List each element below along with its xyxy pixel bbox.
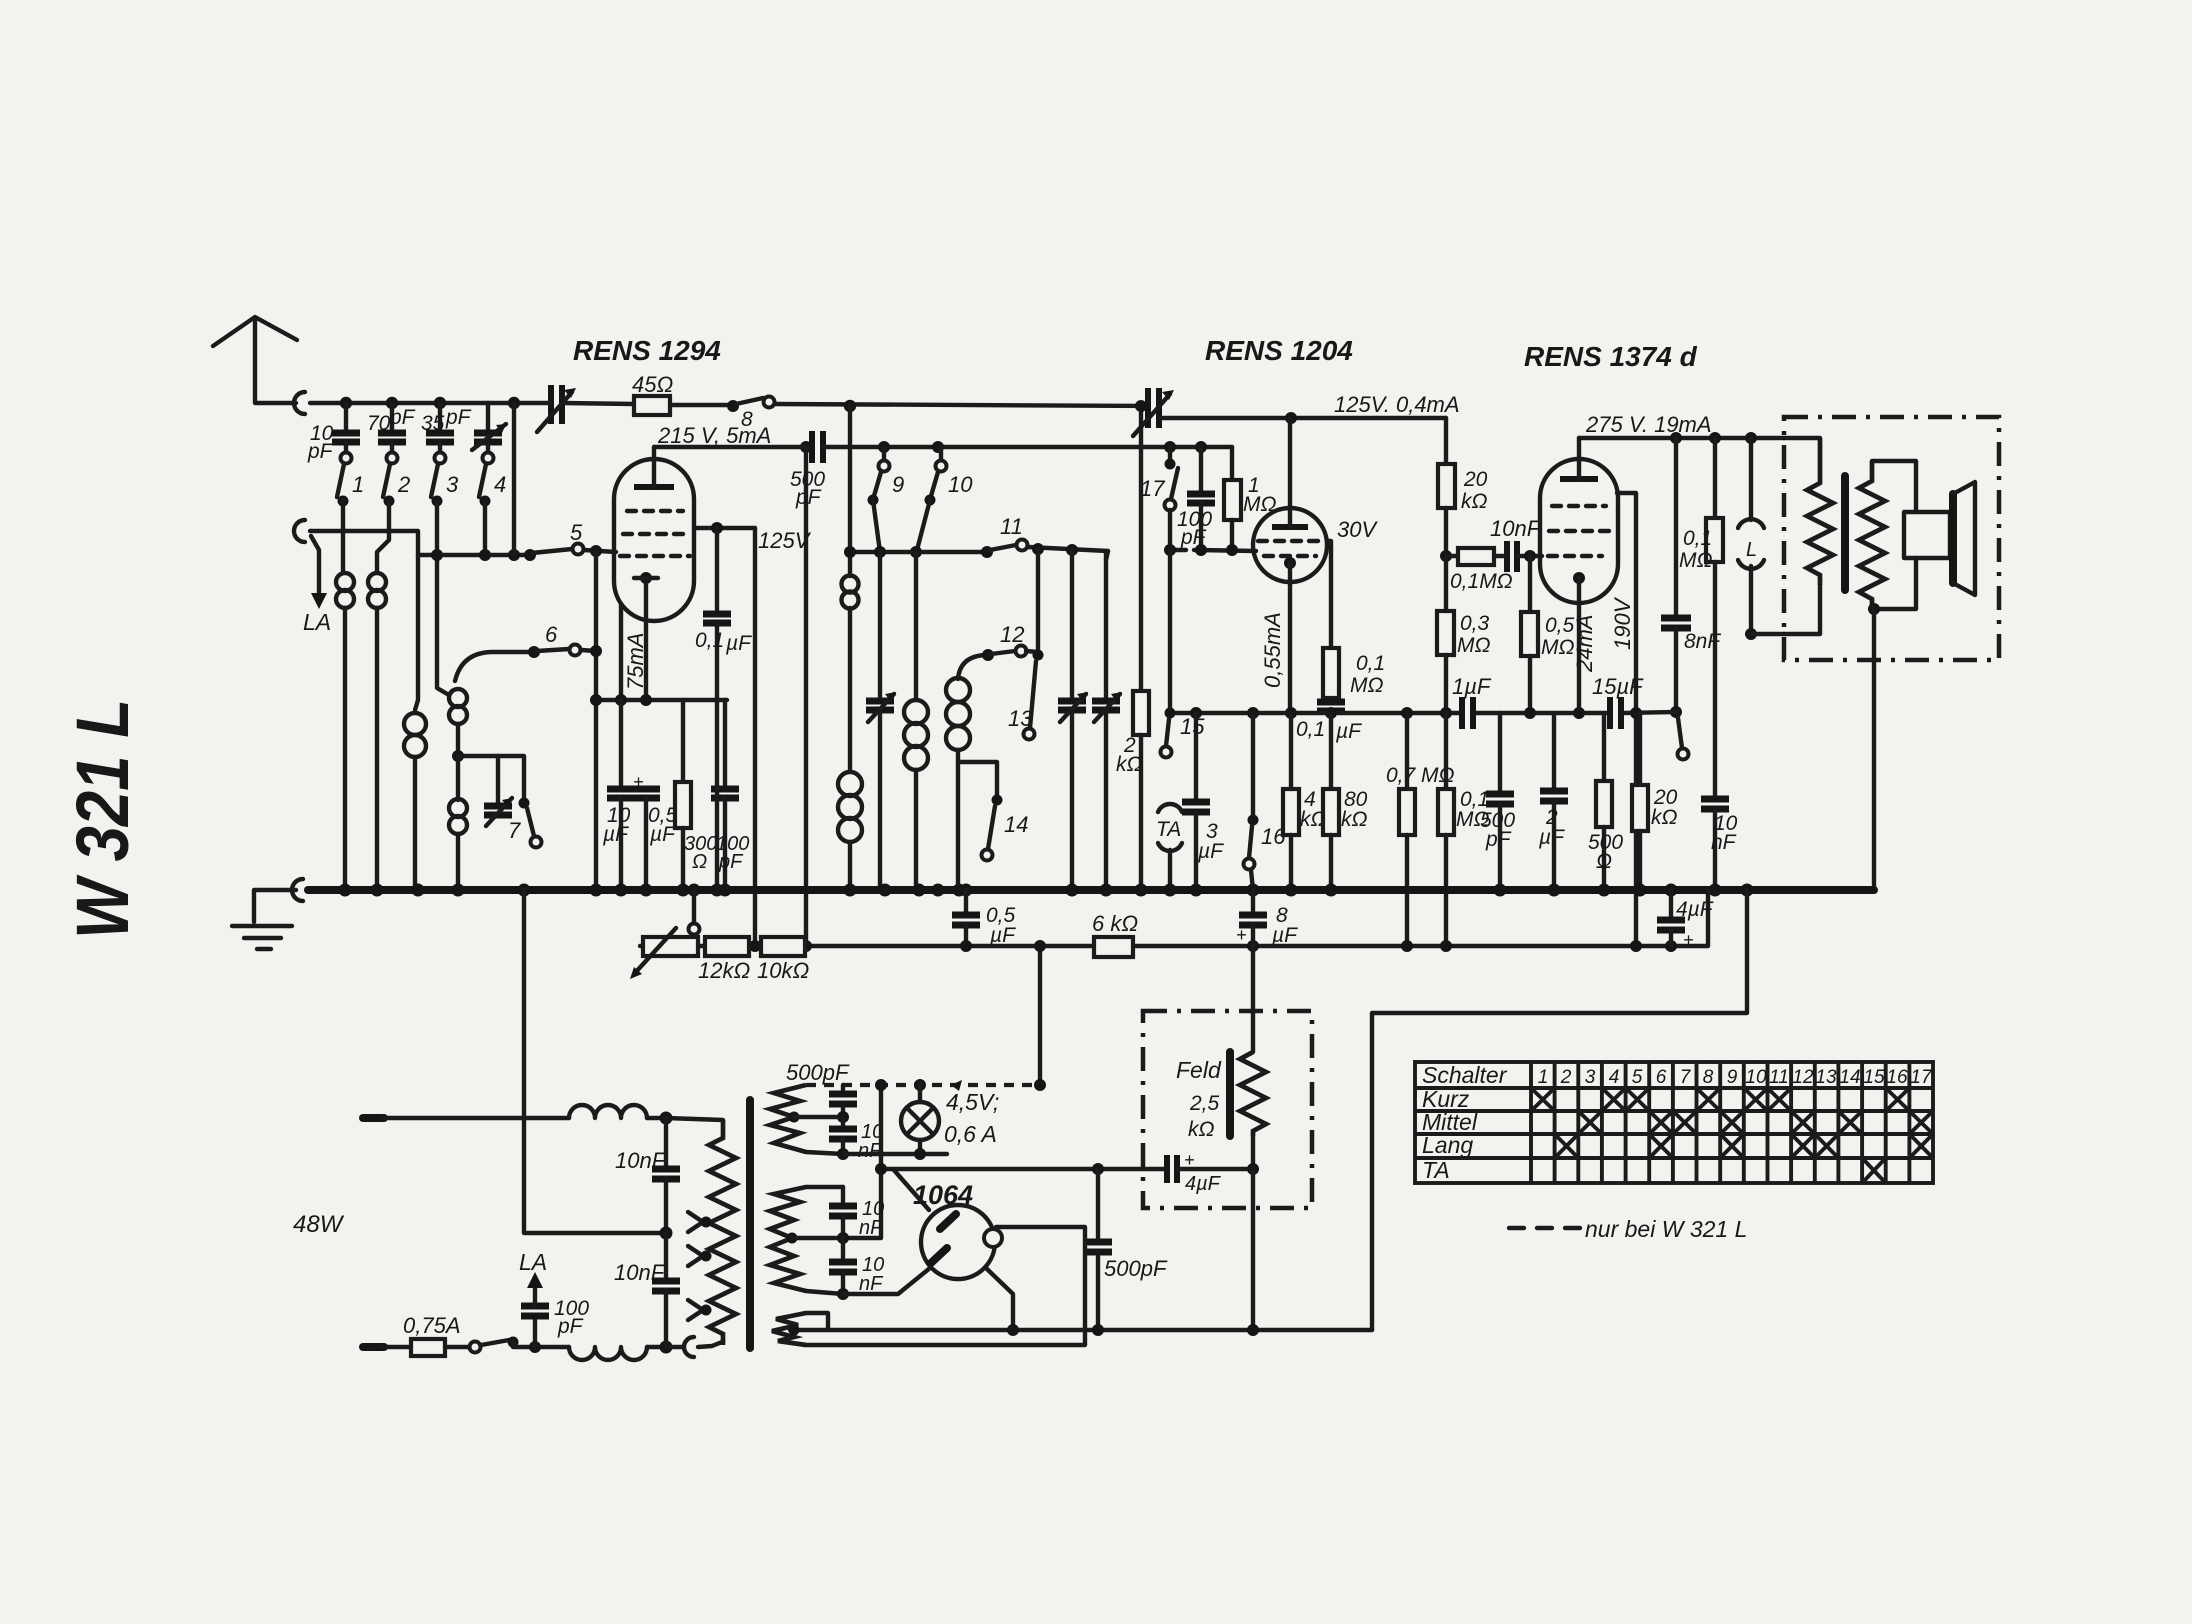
node b3: [1247, 940, 1259, 952]
capacitor 500pF hum: [1096, 1169, 1100, 1239]
svg-text:MΩ: MΩ: [1541, 636, 1574, 659]
svg-text:RENS 1204: RENS 1204: [1205, 335, 1353, 366]
capacitor 70pF: [390, 403, 394, 430]
node u3: [1195, 544, 1207, 556]
capacitor 10uF electrolytic: [619, 700, 623, 786]
node p2: [1247, 707, 1259, 719]
svg-text:kΩ: kΩ: [1341, 808, 1368, 831]
svg-text:30V: 30V: [1337, 517, 1378, 542]
wire input2: [310, 531, 418, 555]
switch 17: [1164, 441, 1176, 453]
node h1: [660, 1112, 673, 1125]
wire grid line y=555: [418, 553, 528, 557]
switch 1: [341, 453, 352, 464]
svg-text:1µF: 1µF: [1452, 674, 1492, 699]
switch 10: [939, 447, 943, 461]
svg-text:nF: nF: [859, 1217, 884, 1239]
capacitor 500pF series: [809, 431, 815, 463]
wire OT primary return: [1751, 585, 1820, 634]
wire x850 IF: [848, 406, 852, 576]
svg-text:4µF: 4µF: [1185, 1173, 1222, 1195]
resistor 0,1MOhm bias: [1444, 713, 1448, 789]
node g5: [590, 645, 602, 657]
capacitor 3uF: [1194, 713, 1198, 799]
svg-text:17: 17: [1910, 1067, 1933, 1088]
capacitor 10nF output: [1701, 796, 1729, 803]
capacitor 2uF: [1552, 713, 1556, 788]
resistor 1MOhm: [1230, 447, 1234, 480]
svg-text:0,5: 0,5: [1545, 614, 1575, 637]
wire lamp line y=1169: [881, 1167, 1164, 1171]
svg-text:14: 14: [1839, 1067, 1860, 1088]
svg-text:8: 8: [1703, 1067, 1714, 1088]
node p1: [1190, 707, 1202, 719]
node a3: [434, 397, 446, 409]
wire 1064 fil a: [843, 1268, 930, 1294]
fuse 0,75A: [411, 1339, 445, 1356]
node g3: [508, 549, 520, 561]
switch 15: [1168, 550, 1172, 710]
switch (8nF tap): [1670, 706, 1682, 718]
node h4: [660, 1227, 673, 1240]
svg-text:1: 1: [352, 472, 364, 497]
cathode: [640, 572, 652, 584]
svg-text:9: 9: [1727, 1067, 1738, 1088]
mains terminal bottom: [363, 1343, 384, 1351]
bus connector: [292, 879, 303, 901]
node l9: [837, 1288, 849, 1300]
svg-text:Feld: Feld: [1176, 1057, 1222, 1083]
svg-text:12: 12: [1792, 1067, 1814, 1088]
node l4: [837, 1148, 849, 1160]
svg-text:10: 10: [1745, 1067, 1767, 1088]
wire 125V screen: [694, 526, 755, 530]
capacitor 35pF: [438, 403, 442, 430]
wire grid return x621: [619, 604, 623, 700]
svg-text:0,3: 0,3: [1460, 612, 1490, 635]
svg-text:10nF: 10nF: [1490, 516, 1542, 541]
wire 30V to grid resistor: [1327, 541, 1331, 648]
node k1: [590, 694, 602, 706]
node m3: [910, 546, 922, 558]
wire sw2 to coil: [377, 501, 389, 572]
wire sw3 down: [437, 501, 449, 695]
trimmer capacitor 13b: [1104, 551, 1108, 698]
node a2: [386, 397, 398, 409]
choke mains bottom: [569, 1347, 647, 1360]
secondary mid winding: [770, 1187, 806, 1291]
svg-text:10nF: 10nF: [614, 1260, 666, 1285]
svg-text:+: +: [1236, 925, 1247, 945]
svg-text:0,1: 0,1: [695, 629, 724, 652]
svg-text:2: 2: [1560, 1067, 1572, 1088]
wire sw4 down: [483, 501, 487, 555]
wire lineB end down: [1106, 551, 1108, 560]
ground symbol: [254, 890, 296, 922]
svg-text:4,5V;: 4,5V;: [946, 1089, 999, 1115]
svg-text:µF: µF: [725, 632, 752, 655]
coil RF input upper: [449, 689, 467, 707]
coil antenna primary: [336, 573, 354, 591]
svg-text:2,5: 2,5: [1189, 1092, 1220, 1115]
node w5: [1868, 603, 1880, 615]
svg-text:11: 11: [1000, 514, 1023, 539]
resistor 300 Ohm: [681, 700, 685, 782]
svg-text:0,1MΩ: 0,1MΩ: [1450, 570, 1513, 593]
node p6: [1440, 707, 1452, 719]
node h2: [529, 1341, 541, 1353]
svg-text:pF: pF: [718, 851, 744, 873]
svg-text:Ω: Ω: [692, 851, 707, 873]
output transformer primary: [1807, 438, 1833, 585]
capacitor 0,1uF anode: [715, 528, 719, 611]
wire AVC from 215V line: [800, 441, 812, 453]
wire 125V line: [1159, 416, 1446, 420]
svg-text:nur bei W 321 L: nur bei W 321 L: [1585, 1216, 1747, 1242]
svg-text:14: 14: [1004, 812, 1028, 837]
svg-text:MΩ: MΩ: [1457, 634, 1490, 657]
capacitor 8uF electrolytic: [1251, 890, 1255, 912]
capacitor 100pF (cathode): [723, 700, 727, 786]
switch 8: [727, 400, 739, 412]
svg-text:µF: µF: [1538, 826, 1565, 849]
wire lamp bottom y=1154: [843, 1152, 947, 1156]
Feld vertical: [1251, 946, 1255, 1052]
wire 1064 anode: [893, 1169, 929, 1210]
node l1: [914, 1079, 926, 1091]
output transformer secondary: [1859, 461, 1885, 607]
bus junction dots: [339, 884, 1754, 897]
dashed 500pF top: [806, 1083, 1040, 1087]
wire 1064 fil b: [987, 1269, 1013, 1330]
node w2: [1709, 432, 1721, 444]
svg-text:4: 4: [494, 472, 506, 497]
node p8: [1573, 707, 1585, 719]
svg-text:Schalter: Schalter: [1422, 1062, 1508, 1088]
node p3: [1285, 707, 1297, 719]
svg-text:RENS 1374 d: RENS 1374 d: [1524, 341, 1698, 372]
svg-text:125V. 0,4mA: 125V. 0,4mA: [1334, 392, 1460, 417]
node b6: [1665, 940, 1677, 952]
coil LW antenna x418: [415, 555, 418, 710]
resistor 6kOhm: [1094, 937, 1133, 957]
svg-text:+: +: [1683, 930, 1694, 950]
capacitor 10nF lamp: [841, 1117, 845, 1126]
node g4: [590, 545, 602, 557]
svg-text:9: 9: [892, 472, 904, 497]
wire to sw7: [458, 756, 524, 800]
svg-text:4µF: 4µF: [1676, 898, 1714, 921]
svg-text:20: 20: [1463, 468, 1488, 491]
wire tube3 cathode: [1577, 578, 1581, 712]
svg-text:13: 13: [1815, 1067, 1837, 1088]
svg-text:TA: TA: [1422, 1157, 1450, 1183]
switch 12: [982, 649, 994, 661]
switch 14: [958, 762, 997, 798]
svg-text:0,55mA: 0,55mA: [1260, 612, 1285, 688]
switch 5: [524, 549, 536, 561]
node b4: [1401, 940, 1413, 952]
wire speaker return to bus: [1872, 609, 1876, 890]
resistor 0,5MOhm: [1528, 556, 1532, 612]
wire speaker top: [1872, 461, 1916, 512]
resistor 2kOhm: [1139, 406, 1143, 691]
wire cathode down: [644, 584, 648, 698]
svg-text:nF: nF: [1711, 831, 1737, 854]
svg-text:Lang: Lang: [1422, 1132, 1473, 1158]
node b7b: [1630, 940, 1642, 952]
node w4: [1745, 628, 1757, 640]
wire x881: [843, 1085, 881, 1238]
switch 2: [387, 453, 398, 464]
coil RF input lower: [449, 799, 467, 817]
wire antenna bus y=403: [310, 401, 549, 405]
node w1: [1670, 432, 1682, 444]
switch 16: [1251, 713, 1255, 817]
resistor 12kOhm: [705, 937, 749, 956]
svg-text:nF: nF: [859, 1273, 884, 1295]
svg-text:2: 2: [397, 472, 410, 497]
wire AF line y=712: [1170, 711, 1462, 715]
resistor 80kOhm: [1329, 713, 1333, 789]
node f2: [1247, 1163, 1259, 1175]
trimmer capacitor x880: [878, 552, 882, 698]
node p9: [1630, 707, 1642, 719]
coil antenna secondary: [368, 573, 386, 591]
resistor 0,1MOhm AVC: [1323, 648, 1339, 698]
svg-text:7: 7: [1680, 1067, 1692, 1088]
node f3: [1092, 1324, 1104, 1336]
svg-text:LA: LA: [519, 1249, 547, 1275]
anode plate: [634, 484, 674, 490]
svg-text:MΩ: MΩ: [1350, 674, 1383, 697]
node m2: [874, 546, 886, 558]
node u5: [1164, 544, 1176, 556]
node b2: [960, 940, 972, 952]
lamp 4,5V: [901, 1102, 939, 1140]
svg-text:µF: µF: [649, 823, 676, 846]
node v1: [1440, 550, 1452, 562]
LA arrow: [311, 536, 319, 595]
svg-text:pF: pF: [389, 406, 416, 429]
svg-text:15: 15: [1863, 1067, 1885, 1088]
svg-text:µF: µF: [1197, 840, 1224, 863]
switch 7: [519, 798, 530, 809]
node f4: [1247, 1324, 1259, 1336]
svg-text:215 V, 5mA: 215 V, 5mA: [657, 423, 771, 448]
node t2: [878, 441, 890, 453]
svg-text:75mA: 75mA: [623, 633, 648, 690]
svg-text:kΩ: kΩ: [1116, 753, 1143, 776]
svg-text:MΩ: MΩ: [1679, 549, 1712, 572]
input terminal 2: [294, 520, 305, 542]
node k2: [615, 694, 627, 706]
svg-text:6: 6: [545, 622, 558, 647]
svg-text:0,1: 0,1: [1683, 527, 1712, 550]
switch 13: [1036, 549, 1040, 652]
svg-text:500pF: 500pF: [786, 1060, 850, 1085]
switch mains: [470, 1342, 481, 1353]
svg-text:275 V. 19mA: 275 V. 19mA: [1585, 412, 1712, 437]
capacitor 10nF coupling: [1494, 554, 1504, 558]
capacitor 0,1uF AVC: [1317, 699, 1345, 706]
trimmer capacitor 13a: [1070, 550, 1074, 698]
wire grid2 line: [1170, 548, 1176, 552]
svg-text:24mA: 24mA: [1572, 615, 1597, 673]
svg-text:10: 10: [948, 472, 973, 497]
choke mains top: [569, 1105, 647, 1118]
field coil resistor: [1240, 1052, 1266, 1136]
svg-text:Ω: Ω: [1596, 850, 1612, 873]
antenna symbol: [213, 317, 297, 346]
node l10: [1007, 1324, 1019, 1336]
switch 6: [455, 652, 532, 681]
svg-text:µF: µF: [1335, 720, 1362, 743]
transformer primary: [709, 1120, 736, 1345]
wire x524 heater: [524, 890, 666, 1233]
node b1b: [749, 940, 761, 952]
resistor 0,1MOhm coupling: [1446, 554, 1458, 558]
node g1: [431, 549, 443, 561]
svg-text:190V: 190V: [1610, 596, 1635, 650]
resistor 4kOhm: [1283, 789, 1299, 835]
svg-text:11: 11: [1769, 1067, 1789, 1088]
wire 275V line: [1579, 436, 1820, 440]
output transformer core: [1841, 476, 1849, 590]
capacitor 15uF series: [1607, 697, 1613, 729]
node l2: [1034, 1079, 1046, 1091]
node b1: [800, 940, 812, 952]
resistor 20kOhm out: [1638, 713, 1642, 785]
wire screen 190V: [1617, 493, 1636, 946]
svg-text:L: L: [1746, 539, 1757, 561]
svg-text:µF: µF: [989, 924, 1016, 947]
svg-text:pF: pF: [307, 440, 334, 463]
capacitor 500pF lamp: [841, 1085, 845, 1091]
svg-text:35: 35: [421, 412, 445, 435]
svg-text:45Ω: 45Ω: [632, 372, 673, 397]
svg-text:13: 13: [1008, 706, 1033, 731]
wire y=556: [850, 550, 987, 554]
capacitor 0,5uF bias: [964, 890, 968, 912]
svg-text:3: 3: [446, 472, 459, 497]
legend nur bei: [1509, 1226, 1580, 1230]
node t1: [844, 400, 856, 412]
node f1: [1092, 1163, 1104, 1175]
wire vert x596: [594, 551, 598, 886]
node v2: [1524, 550, 1536, 562]
capacitor 8nF: [1674, 438, 1678, 615]
svg-text:0,75A: 0,75A: [403, 1313, 461, 1338]
svg-text:10kΩ: 10kΩ: [757, 958, 809, 983]
svg-text:kΩ: kΩ: [1188, 1118, 1215, 1141]
table header numbers: [1538, 1067, 1933, 1088]
node l3: [837, 1111, 849, 1123]
node g2: [479, 549, 491, 561]
node a1: [340, 397, 352, 409]
wire sw1 to coil: [341, 501, 345, 572]
switch 9: [882, 447, 886, 461]
node l7: [875, 1163, 887, 1175]
node a4: [508, 397, 520, 409]
wire bottom line y=1330: [790, 1328, 1372, 1332]
node m8: [1032, 543, 1044, 555]
capacitor 10nF mains lower: [664, 1233, 668, 1278]
svg-text:7: 7: [508, 818, 521, 843]
coil IF b: [914, 552, 918, 700]
antenna terminal connector: [294, 392, 305, 414]
svg-text:pF: pF: [445, 406, 472, 429]
wire stair right: [1372, 890, 1747, 1330]
capacitor 100pF grid2: [1195, 441, 1207, 453]
svg-text:+: +: [1184, 1150, 1195, 1170]
node l8: [837, 1232, 849, 1244]
svg-text:µF: µF: [602, 823, 629, 846]
resistor 20kOhm: [1444, 418, 1448, 464]
node w3: [1745, 432, 1757, 444]
trimmer capacitor w/ arrow (osc): [496, 756, 500, 803]
svg-text:kΩ: kΩ: [1461, 490, 1488, 513]
coil IF a: [842, 576, 859, 593]
svg-text:W 321 L: W 321 L: [61, 699, 144, 939]
svg-text:pF: pF: [795, 486, 822, 509]
switch 3: [435, 453, 446, 464]
ground bus: [308, 886, 1874, 894]
secondary lamp winding: [770, 1085, 806, 1152]
switch table: [1415, 1062, 1933, 1183]
resistor 500 Ohm: [1602, 713, 1606, 781]
node u4: [1226, 544, 1238, 556]
wire x800 AVC down: [753, 528, 757, 946]
svg-text:LA: LA: [303, 609, 331, 635]
svg-text:15µF: 15µF: [1592, 674, 1644, 699]
node b5: [1440, 940, 1452, 952]
svg-text:6: 6: [1656, 1067, 1667, 1088]
capacitor 10nF fil1: [841, 1187, 845, 1203]
capacitor 10nF mains upper: [664, 1118, 668, 1166]
node b7: [1034, 940, 1046, 952]
node p4: [1325, 707, 1337, 719]
wire speaker bottom: [1874, 558, 1916, 609]
svg-text:0,1: 0,1: [1356, 652, 1385, 675]
capacitor 500pF AF: [1498, 713, 1502, 791]
node m1: [844, 546, 856, 558]
node s1: [711, 522, 723, 534]
node p7: [1524, 707, 1536, 719]
svg-text:17: 17: [1140, 476, 1165, 501]
jack TA: [1158, 804, 1182, 812]
svg-text:1: 1: [1538, 1067, 1549, 1088]
svg-text:µF: µF: [1271, 924, 1298, 947]
svg-text:125V: 125V: [758, 528, 812, 553]
node t3: [932, 441, 944, 453]
switch 4: [483, 453, 494, 464]
capacitor 0,5uF: [632, 786, 660, 793]
secondary bottom winding: [772, 1313, 806, 1345]
trimmer capacitor (antenna): [486, 403, 490, 430]
mains terminal top: [363, 1114, 384, 1122]
transformer core: [746, 1100, 754, 1348]
svg-text:12kΩ: 12kΩ: [698, 958, 750, 983]
wire from a4 down: [512, 403, 516, 555]
capacitor 10nF fil2: [841, 1238, 845, 1259]
table X marks: [1531, 1088, 1933, 1183]
speaker: [1904, 512, 1950, 558]
switch 11: [981, 546, 993, 558]
resistor 0,1MOhm output: [1713, 438, 1717, 518]
svg-text:16: 16: [1886, 1067, 1908, 1088]
svg-text:TA: TA: [1156, 818, 1181, 841]
